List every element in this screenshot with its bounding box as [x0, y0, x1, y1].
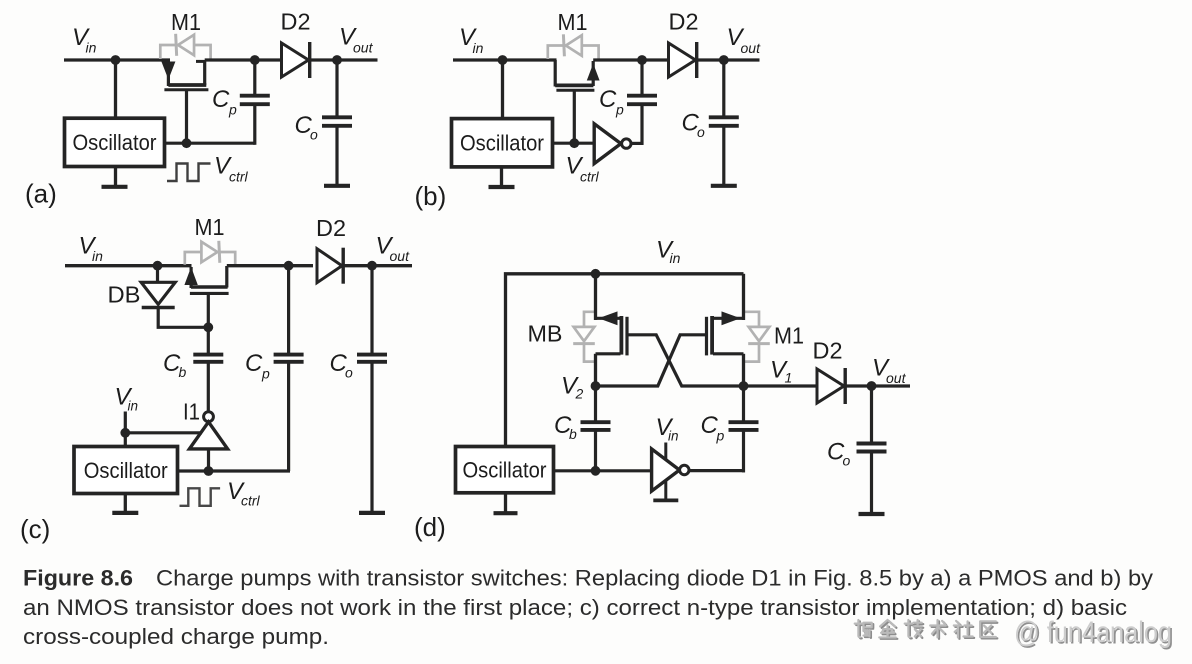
svg-text:M1: M1 [195, 214, 225, 240]
wire Cp bottom (c) [287, 361, 290, 472]
svg-text:ctrl: ctrl [241, 493, 261, 509]
svg-text:(c): (c) [20, 514, 50, 544]
wire Co bottom (c) [370, 362, 373, 512]
svg-text:cross-coupled charge pump.: cross-coupled charge pump. [23, 624, 329, 649]
oscillator U1 (c) [74, 447, 178, 494]
inverter U2 (b) [594, 124, 621, 164]
wire oscillator ground stem (a) [114, 167, 117, 187]
svg-text:C: C [599, 86, 617, 113]
wire M1 gate to V2 (d) [596, 335, 707, 386]
node V2 junction (d) [591, 381, 601, 391]
transistor M1 PMOS (d) [742, 274, 745, 320]
svg-text:b: b [569, 426, 577, 442]
node I1 input junction (c) [204, 466, 214, 476]
wire Vin to oscillator (a) [114, 60, 117, 120]
svg-text:DB: DB [108, 282, 141, 308]
svg-text:p: p [228, 101, 237, 117]
wire Cp top (b) [640, 60, 643, 96]
svg-text:Charge pumps with transistor s: Charge pumps with transistor switches: R… [156, 566, 1154, 591]
wire Cb to I1 (c) [207, 362, 210, 412]
node Cp junction (b) [637, 55, 647, 65]
wire D2 to Vout (d) [846, 384, 911, 387]
wire oscillator output (b) [553, 142, 595, 145]
body diode of M1 (b) [548, 46, 564, 60]
wire oscillator ground stem (d) [504, 493, 507, 513]
diode D2 (a) [282, 43, 309, 77]
transistor M1 NMOS (b) [554, 60, 557, 87]
svg-text:Figure 8.6: Figure 8.6 [23, 566, 133, 591]
wire Co top (d) [870, 386, 873, 445]
ground Co (c) [359, 511, 385, 515]
wire Cp bottom (b) [640, 104, 643, 145]
svg-text:C: C [212, 86, 230, 113]
wire Cb to inverter input (d) [596, 469, 652, 472]
node V1 junction (d) [739, 381, 749, 391]
svg-text:out: out [886, 370, 907, 386]
wire Vin rail (d) [506, 274, 744, 447]
body diode of M1 (a) [160, 45, 176, 59]
svg-text:(a): (a) [25, 179, 57, 209]
svg-text:out: out [353, 39, 374, 55]
wire V1 to Cp (d) [742, 386, 745, 424]
svg-text:in: in [473, 40, 484, 56]
wire M1 drain to D2 (c) [227, 264, 313, 267]
wire D2 to Vout (a) [310, 58, 378, 61]
node Cp junction (c) [284, 261, 294, 271]
wire Vin input (a) [64, 58, 170, 61]
svg-text:MB: MB [528, 321, 563, 347]
inverter I1 (c) [204, 412, 214, 422]
svg-text:D2: D2 [669, 9, 699, 35]
ground oscillator (c) [112, 511, 138, 515]
node junction Vin (b) [498, 55, 508, 65]
svg-text:out: out [390, 248, 411, 264]
ground Co (b) [711, 184, 737, 188]
diode D2 (d) [817, 369, 844, 403]
svg-text:o: o [843, 453, 851, 469]
svg-text:in: in [86, 39, 97, 55]
wire oscillator ground stem (b) [500, 167, 503, 186]
svg-text:(d): (d) [414, 512, 446, 542]
wire Cp bottom (d) [742, 430, 745, 473]
ground oscillator (d) [494, 511, 518, 515]
wire Vin stub (c) [124, 412, 127, 448]
wire Co top (a) [335, 60, 338, 118]
body diode of MB (d) [584, 312, 597, 327]
node Vout junction (c) [367, 261, 377, 271]
capacitor Cb (c) [193, 353, 223, 357]
wire oscillator ground stem (c) [124, 494, 127, 513]
svg-text:ctrl: ctrl [229, 168, 249, 184]
svg-text:p: p [261, 366, 270, 382]
wire M1 gate (c) [207, 295, 210, 328]
wire inverter output to Cp (b) [631, 142, 644, 145]
capacitor Co (a) [322, 115, 352, 119]
ground Co (a) [324, 184, 350, 188]
wire M1 gate (a) [185, 91, 188, 143]
ground inverter (d) [653, 498, 678, 502]
svg-text:M1: M1 [171, 9, 201, 35]
svg-text:C: C [245, 350, 263, 377]
svg-text:in: in [668, 429, 679, 444]
wire oscillator output (c) [178, 469, 291, 472]
svg-text:M1: M1 [774, 323, 804, 349]
svg-text:out: out [741, 40, 762, 56]
wire Co bottom (b) [722, 126, 725, 185]
svg-text:p: p [615, 102, 624, 118]
capacitor Cb (d) [581, 420, 611, 424]
wire oscillator output (a) [165, 142, 255, 145]
transistor M1 NMOS (c) [184, 267, 197, 285]
wire I1 input (c) [207, 449, 210, 471]
wire Vin to I1 supply (c) [125, 431, 202, 434]
diode D2 (b) [669, 43, 696, 77]
capacitor Cp (c) [274, 353, 304, 357]
node Vin stub junction (c) [120, 428, 130, 438]
wire Cp top (a) [253, 60, 256, 96]
wire MB gate to V1 (d) [627, 335, 744, 386]
diode DB (c) [141, 282, 175, 304]
svg-text:in: in [92, 248, 103, 264]
node gate junction (b) [569, 138, 579, 148]
watermark CJK text [856, 621, 873, 638]
svg-text:D2: D2 [281, 9, 311, 35]
capacitor Co (b) [709, 115, 739, 119]
wire Vin input (c) [65, 264, 192, 267]
node Vout junction (a) [332, 55, 342, 65]
capacitor Co (c) [357, 353, 387, 357]
svg-text:@ fun4analog: @ fun4analog [1014, 616, 1172, 649]
transistor M1 PMOS (a) [167, 61, 170, 86]
capacitor Co (d) [857, 442, 887, 446]
svg-text:2: 2 [575, 386, 584, 402]
wire Cp top (c) [287, 266, 290, 356]
svg-text:o: o [310, 127, 318, 143]
wire Co top (b) [722, 60, 725, 118]
wire M1 gate (b) [573, 91, 576, 143]
node Cb junction (d) [591, 466, 601, 476]
wire gate node to Cb (c) [207, 327, 210, 356]
ground oscillator (b) [489, 185, 515, 189]
wire D2 to Vout (c) [341, 264, 412, 267]
wire M1 drain to D2 (a) [205, 58, 282, 61]
svg-text:(b): (b) [415, 181, 447, 211]
node Cp junction (a) [250, 55, 260, 65]
node Vout junction (b) [719, 55, 729, 65]
wire V1 to D2 (d) [744, 384, 818, 387]
node gate junction (c) [203, 322, 213, 332]
svg-text:an NMOS transistor does not wo: an NMOS transistor does not work in the … [23, 595, 1127, 620]
ground oscillator (a) [102, 185, 128, 189]
svg-text:M1: M1 [558, 9, 588, 35]
inverter U2 (d) [664, 443, 667, 461]
svg-text:Oscillator: Oscillator [73, 130, 157, 155]
node Vin rail junction (d) [591, 269, 601, 279]
ground Co (d) [859, 512, 885, 516]
oscillator U1 (b) [452, 119, 553, 167]
svg-text:Oscillator: Oscillator [84, 458, 168, 483]
wire M1 drain to D2 (b) [593, 58, 669, 61]
oscillator U1 (d) [456, 447, 554, 493]
wire Co bottom (a) [335, 126, 338, 185]
svg-text:Oscillator: Oscillator [460, 131, 544, 156]
diode D2 (c) [317, 249, 342, 283]
svg-text:o: o [697, 124, 705, 140]
wire Vin to oscillator (b) [501, 60, 504, 120]
wire Co bottom (d) [870, 452, 873, 514]
transistor MB PMOS (d) [594, 274, 597, 320]
body diode of M1 (d) [743, 312, 760, 327]
node junction Vin (c) [153, 261, 163, 271]
oscillator U1 (a) [65, 118, 165, 166]
svg-text:o: o [345, 365, 353, 381]
svg-text:D2: D2 [316, 215, 346, 241]
wire Cp bottom (a) [253, 104, 256, 145]
svg-text:D2: D2 [813, 338, 843, 364]
svg-text:I1: I1 [183, 399, 200, 425]
square wave Vctrl symbol (c) [180, 488, 221, 506]
svg-text:p: p [716, 428, 725, 444]
capacitor Cp (a) [240, 94, 270, 98]
body diode of M1 (c) [185, 252, 202, 265]
node Vout junction (d) [867, 381, 877, 391]
svg-text:1: 1 [785, 370, 793, 386]
svg-text:in: in [128, 399, 139, 414]
svg-text:b: b [179, 364, 187, 380]
wire Vin input (b) [453, 58, 557, 61]
wire Vin to DB (c) [156, 266, 159, 284]
wire D2 to Vout (b) [697, 58, 760, 61]
node junction Vin (a) [111, 55, 121, 65]
wire Cb bottom (d) [594, 430, 597, 471]
wire DB to gate node (c) [158, 308, 208, 328]
node gate junction (a) [182, 138, 192, 148]
wire V2 to Cb (d) [594, 386, 597, 424]
square wave Vctrl symbol (a) [167, 164, 211, 182]
svg-text:Oscillator: Oscillator [463, 457, 547, 482]
wire inverter output to Cp (d) [689, 469, 745, 472]
svg-text:in: in [670, 250, 681, 266]
capacitor Cp (d) [729, 420, 759, 424]
wire Co top (c) [370, 266, 373, 356]
wire oscillator output (d) [554, 469, 596, 472]
capacitor Cp (b) [627, 94, 657, 98]
svg-text:ctrl: ctrl [580, 168, 600, 184]
